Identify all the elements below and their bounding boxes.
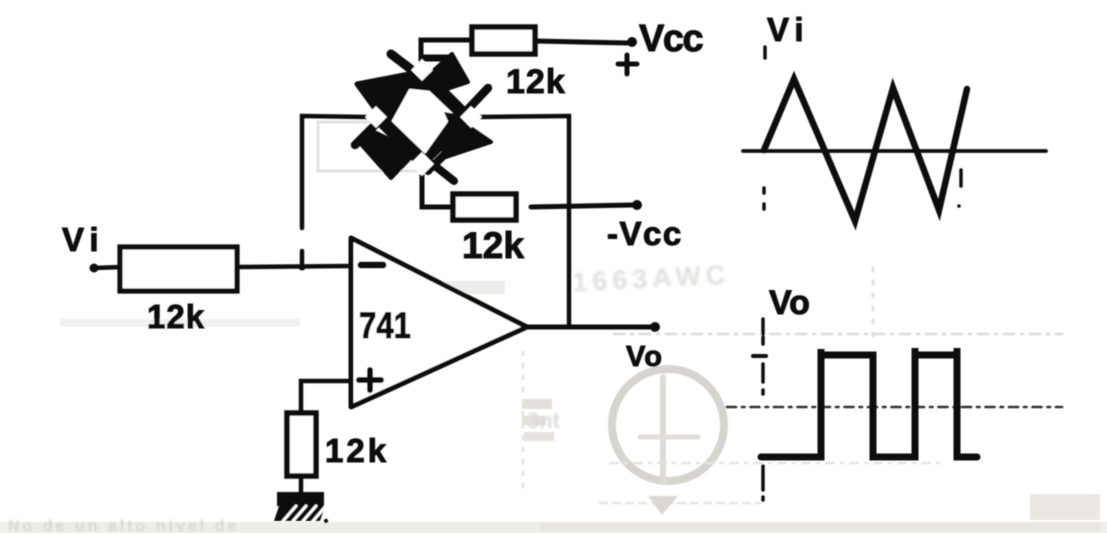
svg-text:741: 741 <box>359 305 411 346</box>
label Vo (output) <box>626 341 663 373</box>
wire: op-amp output to Vo terminal <box>525 325 651 330</box>
svg-text:-Vcc: -Vcc <box>607 215 683 252</box>
wire: noninverting input to R4 <box>301 381 350 414</box>
node: bridge centre opening <box>393 90 463 152</box>
label Vi (waveform panel) <box>767 11 810 48</box>
wire: bridge right node to output (right vertical feedback) <box>477 116 569 327</box>
wire: bridge top node to R1 <box>421 40 474 61</box>
Vi waveform horizontal axis <box>743 149 1046 153</box>
node Vo output terminal <box>650 322 660 332</box>
label Vcc <box>639 18 703 60</box>
node Vcc terminal <box>627 37 637 47</box>
svg-text:No de un alto nivel de: No de un alto nivel de <box>8 518 239 535</box>
wire: R2 to -Vcc terminal <box>531 205 632 207</box>
node: bridge bottom junction opening <box>410 152 434 176</box>
wire: bridge left node to feedback junction (left vertical) <box>302 116 368 263</box>
wire: R4 to ground <box>299 476 304 493</box>
label -Vcc <box>607 215 683 252</box>
resistor R3 12k (input) <box>120 247 237 291</box>
svg-text:12k: 12k <box>462 225 524 266</box>
label Vi <box>62 221 105 258</box>
resistor R4 12k (to ground) <box>287 413 316 476</box>
svg-text:Vi: Vi <box>767 11 810 48</box>
node: feedback junction on input wire <box>299 264 306 271</box>
diode D1 (top-left) <box>357 54 446 117</box>
svg-text:12k: 12k <box>147 298 205 335</box>
Vo waveform vertical axis (dash-dot) <box>753 319 766 500</box>
svg-text:12k: 12k <box>506 63 566 101</box>
diode bridge body (ring) <box>370 65 474 169</box>
label R2 value 12k <box>462 225 524 266</box>
op-amp U1 741 <box>351 238 527 407</box>
Vi axis tick marks <box>764 47 961 209</box>
wire: Vi terminal to R3 <box>94 267 122 268</box>
diode D3 (bottom-left) <box>360 130 453 178</box>
wire: R3 to inverting input <box>237 266 350 267</box>
cathode bar at bridge left node <box>355 108 392 145</box>
svg-text:Vi: Vi <box>62 221 105 258</box>
node Vi input terminal <box>90 264 99 273</box>
node: bridge top junction opening <box>411 59 433 81</box>
label + polarity mark <box>618 55 637 74</box>
label R1 value 12k <box>506 63 566 101</box>
svg-text:12k: 12k <box>325 432 389 469</box>
svg-text:Vcc: Vcc <box>639 18 703 60</box>
ground <box>274 492 328 523</box>
cathode bar at bridge right node <box>451 88 488 127</box>
svg-text:3nt: 3nt <box>527 408 561 433</box>
resistor R2 12k (to -Vcc) <box>453 194 516 220</box>
svg-text:1663AWC: 1663AWC <box>572 259 731 297</box>
label Vo (waveform panel) <box>769 284 810 322</box>
svg-text:Vo: Vo <box>626 341 663 373</box>
wire: bridge bottom node to R2 <box>422 175 455 207</box>
diode D4 (bottom-right) <box>430 112 491 181</box>
label R4 value 12k <box>325 432 389 469</box>
Vo square waveform <box>761 348 977 457</box>
op-amp noninverting input marker (+) <box>359 370 381 390</box>
node: bridge left junction opening <box>365 106 387 128</box>
diode D2 (top-right) <box>424 54 468 92</box>
label 741 <box>359 305 411 346</box>
op-amp inverting input marker (-) <box>361 262 383 269</box>
node: bridge right junction opening <box>460 106 482 128</box>
label R3 value 12k <box>147 298 205 335</box>
Vo waveform zero line (dash-dot) <box>727 406 1062 409</box>
Vi triangle waveform <box>764 79 967 221</box>
node -Vcc terminal <box>632 200 642 210</box>
svg-text:Vo: Vo <box>769 284 810 322</box>
resistor R1 12k (to +Vcc) <box>472 27 535 54</box>
wire: R1 to Vcc terminal <box>535 41 627 43</box>
